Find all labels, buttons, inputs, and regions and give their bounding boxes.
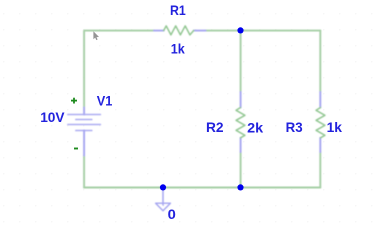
voltage source V1 pin top: [83, 108, 85, 115]
junction dot top node: [237, 27, 243, 33]
wire: right vertical lower (R3 to bottom): [319, 152, 321, 188]
svg-text:R1: R1: [170, 2, 186, 18]
minus polarity mark: [74, 148, 78, 150]
pin R1 left: [154, 30, 164, 32]
svg-text:V1: V1: [97, 93, 113, 109]
pin R2 top: [240, 92, 242, 108]
svg-text:0: 0: [168, 206, 176, 222]
ground triangle: [156, 203, 171, 211]
svg-text:R2: R2: [206, 119, 224, 135]
wire: top horizontal right of R1: [206, 30, 321, 32]
resistor R1 body: [164, 26, 194, 35]
svg-text:1k: 1k: [171, 41, 185, 57]
resistor R2 body: [236, 108, 245, 138]
svg-text:1k: 1k: [327, 119, 343, 135]
svg-text:R3: R3: [286, 119, 303, 135]
junction dot bottom middle node: [237, 184, 243, 190]
plus polarity mark: [71, 98, 77, 104]
wire: bottom horizontal: [84, 187, 320, 189]
wire: left vertical top segment: [84, 31, 154, 108]
voltage source V1 pin bottom: [83, 131, 85, 156]
V1 plate 4 (short): [76, 130, 92, 132]
junction dot ground node: [160, 184, 166, 190]
V1 plate 1 (long): [68, 114, 101, 116]
resistor R3 body: [316, 108, 325, 138]
pin R1 right: [194, 30, 206, 32]
ground lead: [162, 188, 164, 206]
pin R2 bottom: [240, 138, 242, 152]
wire: middle branch lower (R2 to bottom): [240, 152, 242, 188]
V1 plate 2 (short): [76, 119, 92, 121]
V1 plate 3 (long): [68, 124, 101, 126]
wire: middle branch upper (node to R2): [240, 31, 242, 92]
wire: left vertical bottom segment: [83, 156, 85, 188]
svg-text:10V: 10V: [40, 109, 65, 125]
pin R3 top: [319, 92, 321, 108]
pin R3 bottom: [319, 138, 321, 152]
cursor arrow: [93, 31, 99, 40]
wire: right vertical upper (to R3): [319, 31, 321, 92]
svg-text:2k: 2k: [247, 119, 263, 135]
